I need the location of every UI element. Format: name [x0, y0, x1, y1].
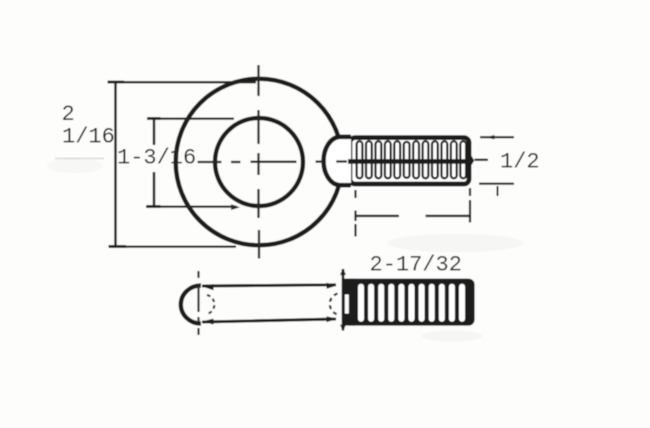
threads (top view): [357, 141, 467, 178]
horizontal centerline (top view, dash-dot): [198, 160, 489, 162]
right extension line (dashed): [469, 188, 471, 223]
vertical centerline through dome (dashed): [197, 271, 199, 335]
extension line top (2 1/16): [113, 81, 256, 83]
horizontal centerline through shank (top view): [348, 159, 471, 164]
faint scan smudges: [387, 234, 523, 252]
shank right tip: [469, 152, 474, 169]
tick bottom: [147, 205, 161, 208]
faint centerline ghost left of text: [55, 158, 104, 160]
tick top: [147, 117, 161, 120]
outer circle (eye OD): [176, 79, 343, 246]
1/2 callout: lower arrow line: [479, 184, 514, 196]
tick bottom: [109, 245, 127, 248]
arrow blob at end of bottom extension line: [231, 204, 240, 210]
body bottom line with arrows (side view): [202, 316, 337, 324]
hidden arc at dome root (dashed, bulging right): [207, 295, 214, 314]
shank band (top view, threaded): [350, 138, 474, 184]
thread-length dimension line (top view, y 216): [356, 215, 470, 217]
extension line bottom (2 1/16): [110, 245, 236, 247]
thread start vertical line (side view): [340, 269, 346, 332]
body top line with arrows (side view): [202, 283, 337, 290]
left extension line (dashed): [354, 190, 356, 237]
svg-text:1-3/16: 1-3/16: [117, 146, 196, 171]
dome end (side view): [181, 285, 201, 323]
vertical centerline (top view, dashed): [257, 65, 260, 259]
svg-text:2-17/32: 2-17/32: [370, 253, 462, 278]
thread band (side view): [343, 279, 475, 326]
dome cap at shank root (top view): [324, 137, 351, 185]
white thread slots: [358, 284, 364, 322]
tick top: [108, 81, 125, 84]
svg-text:1/16: 1/16: [62, 125, 115, 150]
white notch at band start: [345, 295, 349, 314]
svg-text:2: 2: [62, 102, 75, 127]
hidden arc at thread runout (dashed, bulging left): [330, 294, 338, 315]
1/2 callout: upper arrow line: [480, 135, 514, 139]
extension line top (1-3/16): [152, 117, 235, 119]
dimension 2 1/16: vertical dimension line: [114, 82, 117, 247]
svg-text:1/2: 1/2: [500, 150, 540, 175]
extension line bottom (1-3/16): [146, 205, 237, 207]
dimension 1-3/16: vertical dimension line (interrupted by text): [153, 119, 156, 207]
inner circle (eye ID): [215, 118, 303, 206]
